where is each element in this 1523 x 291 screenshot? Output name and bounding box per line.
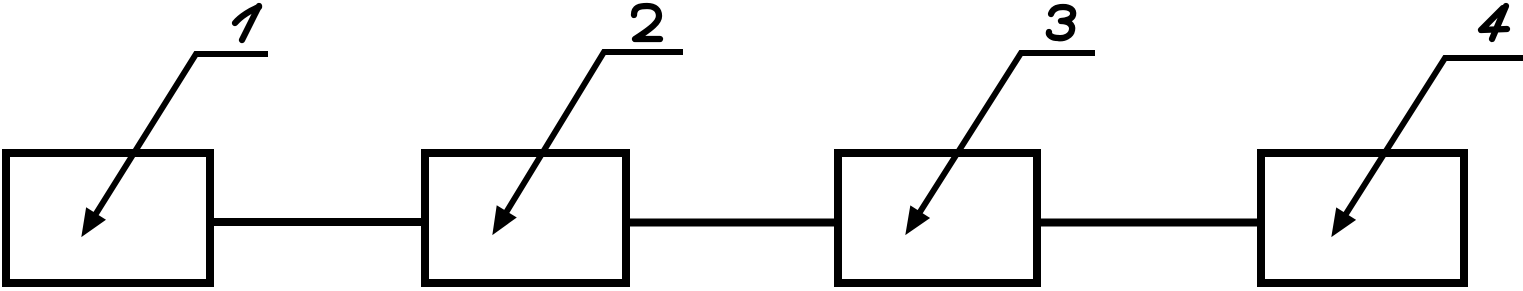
wire block2-block3 bbox=[628, 219, 836, 227]
label 3 bbox=[1049, 7, 1073, 38]
leader arrow to block 4 bbox=[1332, 58, 1523, 236]
leader arrow to block 1 bbox=[82, 54, 268, 236]
leader arrow to block 3 bbox=[906, 53, 1095, 234]
block 4 bbox=[1261, 153, 1464, 283]
wire block1-block2 bbox=[211, 218, 423, 226]
label 4 bbox=[1481, 6, 1507, 39]
block 1 bbox=[6, 153, 210, 283]
label 1 bbox=[235, 6, 259, 40]
wire block3-block4 bbox=[1039, 219, 1259, 227]
label 2 bbox=[634, 6, 660, 39]
block 3 bbox=[838, 153, 1037, 283]
block 2 bbox=[425, 153, 626, 283]
leader arrow to block 2 bbox=[493, 52, 683, 234]
